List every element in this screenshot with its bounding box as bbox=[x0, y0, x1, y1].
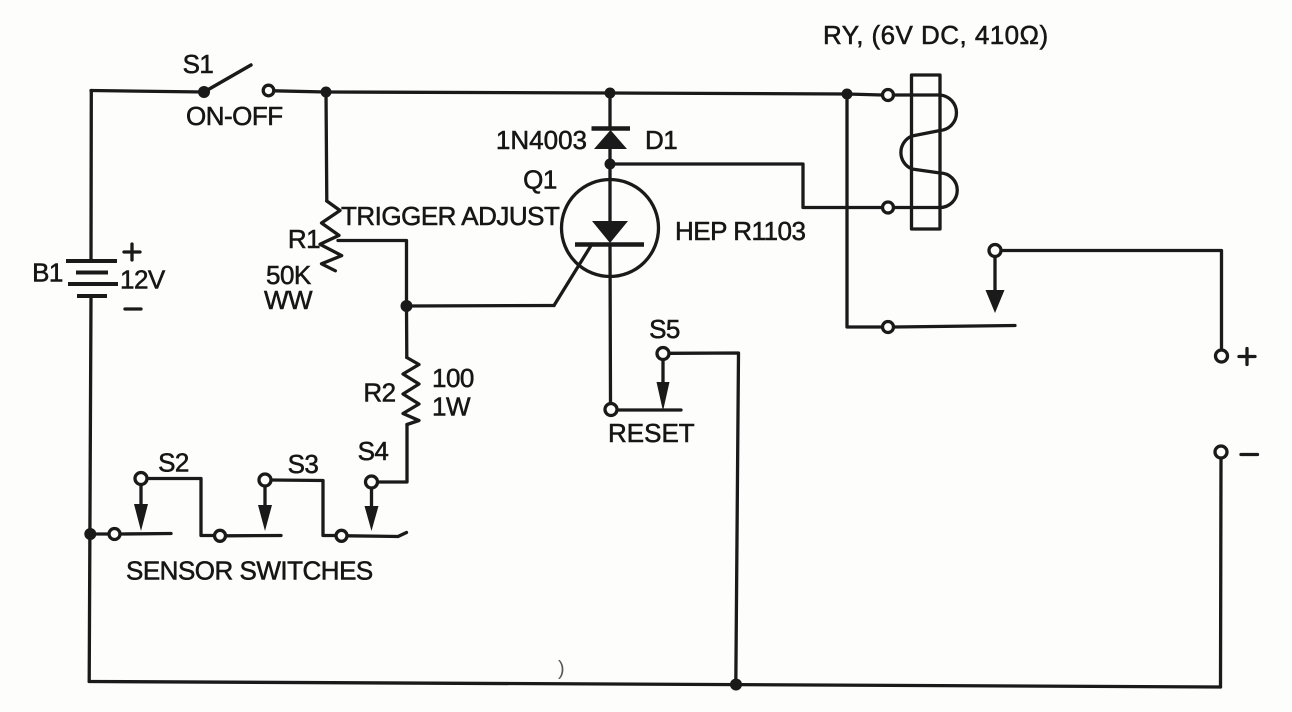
wire gate horizontal bbox=[407, 304, 555, 308]
node junction bottom rail bbox=[730, 679, 742, 691]
output plus sign bbox=[1239, 349, 1255, 365]
svg-text:ON-OFF: ON-OFF bbox=[186, 101, 283, 131]
switch S5 plunger terminal bbox=[657, 348, 669, 360]
wire S2 to S3 blade bbox=[148, 479, 214, 536]
svg-text:S2: S2 bbox=[158, 448, 189, 478]
svg-text:R2: R2 bbox=[363, 378, 395, 408]
relay RY core rectangle bbox=[912, 75, 941, 229]
switch S5 arrow bbox=[661, 361, 664, 385]
sensor blade 1 from battery rail bbox=[90, 532, 108, 535]
switch S3 plunger terminal bbox=[259, 474, 271, 486]
wire top left from battery to S1 bbox=[91, 91, 204, 93]
node junction D1 anode bbox=[605, 159, 616, 170]
wire R2 top drop bbox=[405, 306, 409, 358]
SCR Q1 cathode bar bbox=[575, 242, 644, 247]
wire sensor blade 1 bbox=[121, 532, 172, 536]
SCR Q1 circle bbox=[562, 180, 659, 277]
node junction at R1 bbox=[321, 87, 332, 98]
wire minus terminal to bottom rail bbox=[1219, 459, 1223, 688]
svg-text:SENSOR SWITCHES: SENSOR SWITCHES bbox=[126, 556, 373, 586]
wire top rail from S1 to relay bbox=[274, 91, 882, 95]
svg-text:HEP R1103: HEP R1103 bbox=[675, 216, 805, 246]
svg-text:): ) bbox=[558, 658, 564, 680]
wire sensor blade 2 bbox=[226, 534, 281, 538]
wire R1 top drop bbox=[324, 92, 328, 201]
relay coil bottom terminal bbox=[883, 202, 894, 213]
switch S4 arrow bbox=[370, 489, 373, 508]
switch S1 node dot bbox=[198, 86, 210, 98]
svg-text:Q1: Q1 bbox=[523, 165, 557, 195]
wire R1 wiper tap bbox=[338, 241, 407, 303]
svg-text:1W: 1W bbox=[432, 392, 471, 422]
wire D1 branch top bbox=[608, 93, 611, 127]
SCR Q1 triangle bbox=[592, 221, 628, 243]
svg-text:B1: B1 bbox=[32, 258, 63, 288]
svg-text:S1: S1 bbox=[183, 49, 214, 79]
switch S5 reset terminal bbox=[605, 404, 617, 416]
wire S5 to bottom rail bbox=[670, 353, 739, 685]
battery B1 bbox=[66, 261, 118, 296]
wire NO contact to plus output bbox=[1002, 251, 1222, 350]
node junction at relay bbox=[842, 89, 853, 100]
wire R2 bottom to S4 bbox=[378, 425, 407, 483]
output minus sign bbox=[1241, 453, 1258, 456]
svg-text:RESET: RESET bbox=[608, 418, 695, 448]
wire left vertical battery top bbox=[89, 91, 93, 262]
diode D1 cathode bar bbox=[592, 126, 631, 131]
wire bottom rail bbox=[89, 682, 1220, 688]
svg-text:S4: S4 bbox=[358, 436, 389, 466]
battery minus sign bbox=[125, 307, 141, 310]
svg-text:R1: R1 bbox=[288, 224, 320, 254]
switch S2 arrow bbox=[139, 486, 142, 507]
sensor terminal circle mid bbox=[215, 530, 226, 541]
sensor terminal circle left bbox=[109, 529, 120, 540]
svg-text:WW: WW bbox=[264, 285, 313, 315]
svg-text:TRIGGER ADJUST: TRIGGER ADJUST bbox=[341, 201, 560, 231]
wire S3 to S4 blade bbox=[272, 480, 336, 536]
node junction gate/R2 bbox=[401, 300, 413, 312]
relay coil top terminal bbox=[883, 90, 894, 101]
battery plus sign bbox=[124, 244, 140, 260]
svg-text:12V: 12V bbox=[120, 265, 166, 295]
svg-text:100: 100 bbox=[432, 363, 474, 393]
relay common terminal bbox=[883, 322, 894, 333]
wire sensor blade 3 bbox=[348, 533, 407, 537]
relay contact arrow bbox=[993, 258, 996, 293]
svg-text:S3: S3 bbox=[288, 449, 319, 479]
switch S3 arrow bbox=[263, 487, 266, 507]
output minus terminal bbox=[1215, 446, 1227, 458]
wire reset blade bbox=[618, 408, 682, 411]
resistor R2 zigzag bbox=[403, 358, 419, 425]
relay NO contact terminal bbox=[989, 245, 1001, 257]
svg-text:RY, (6V DC, 410Ω): RY, (6V DC, 410Ω) bbox=[823, 20, 1049, 50]
diode D1 triangle bbox=[594, 130, 627, 149]
wire battery bottom vertical down to bottom rail bbox=[89, 296, 91, 682]
wire gate diagonal bbox=[554, 244, 592, 306]
svg-text:1N4003: 1N4003 bbox=[496, 125, 587, 155]
sensor terminal circle right bbox=[336, 530, 347, 541]
wire relay coil bottom to D1 node bbox=[610, 164, 882, 208]
switch S1 blade bbox=[204, 65, 251, 92]
wire relay common blade bbox=[894, 326, 1015, 328]
wire D1 to anode node bbox=[608, 149, 611, 164]
wire relay common vertical bbox=[847, 94, 882, 327]
output plus terminal bbox=[1216, 350, 1228, 362]
relay RY coil windings bbox=[894, 95, 958, 208]
svg-text:S5: S5 bbox=[649, 314, 680, 344]
wire anode into Q1 bbox=[608, 164, 611, 221]
switch S4 plunger terminal bbox=[366, 476, 378, 488]
svg-text:D1: D1 bbox=[645, 125, 677, 155]
node junction battery/sensors bbox=[84, 528, 96, 540]
wire Q1 cathode down bbox=[608, 246, 612, 403]
switch S1 open terminal bbox=[263, 85, 274, 96]
node junction at D1 bbox=[605, 88, 616, 99]
switch S2 plunger terminal bbox=[135, 473, 147, 485]
resistor R1 zigzag bbox=[320, 201, 342, 271]
